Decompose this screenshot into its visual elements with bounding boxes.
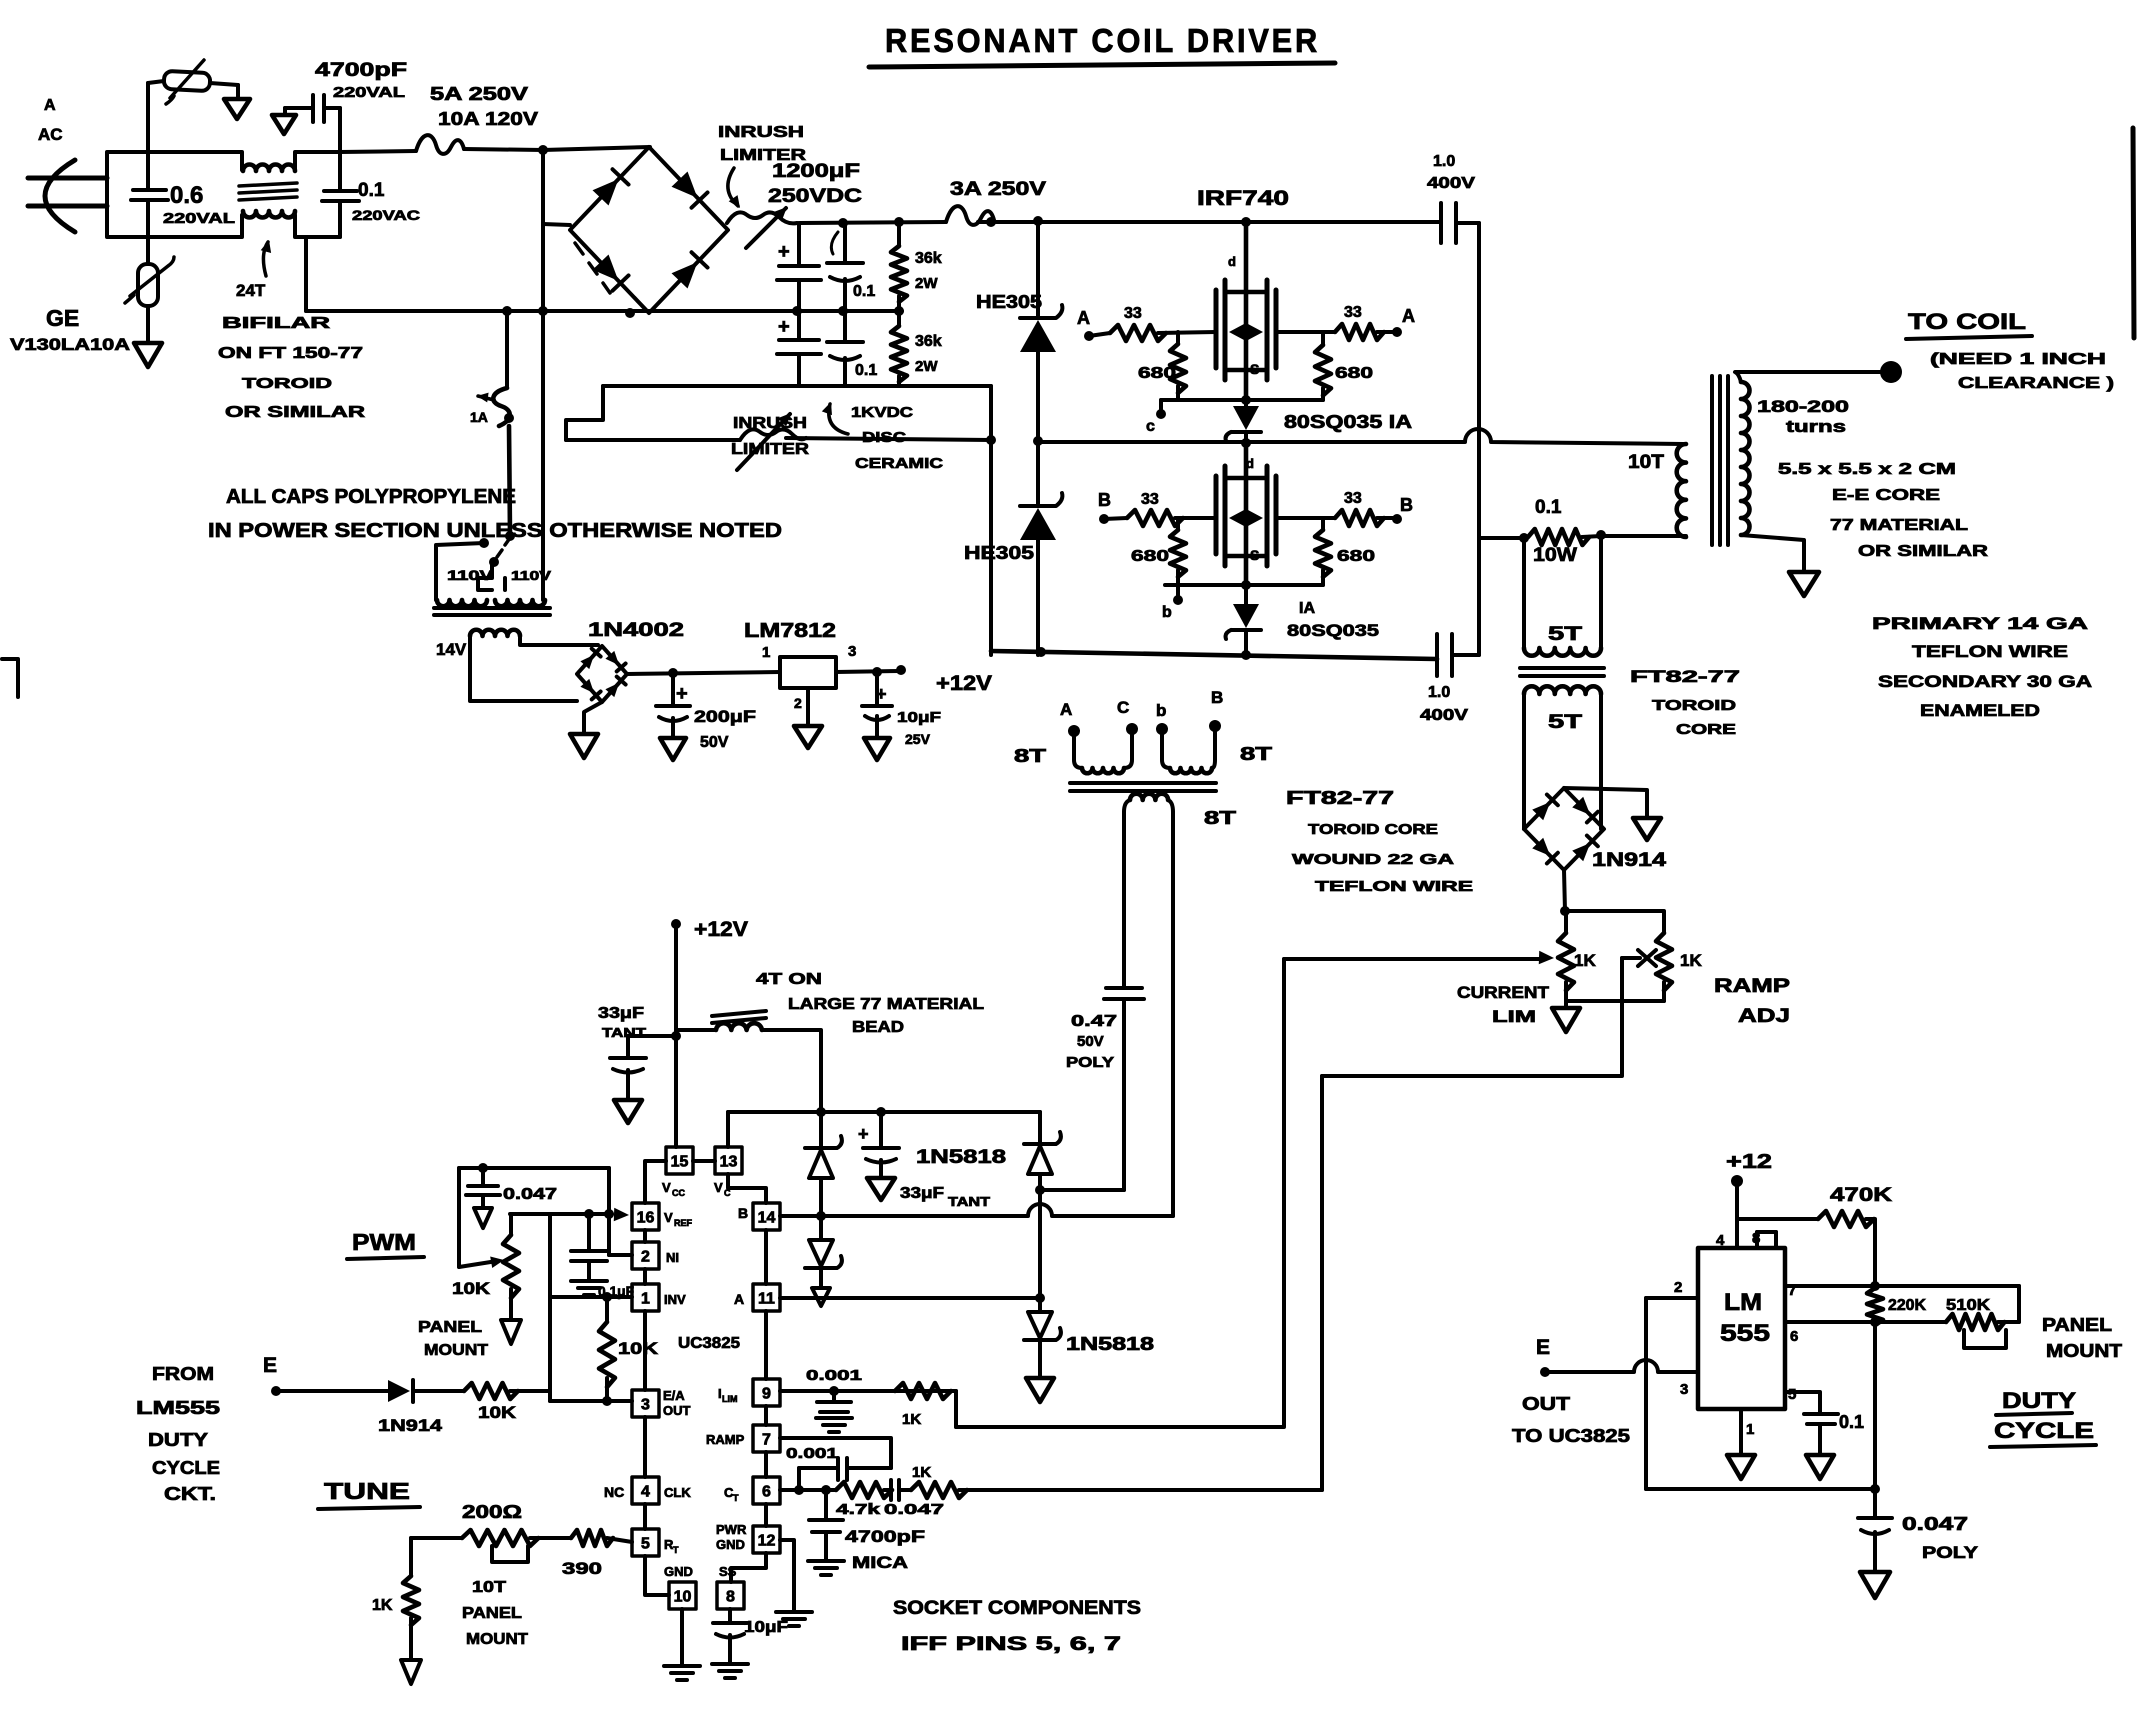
diode D2 HE305	[1033, 436, 1043, 446]
svg-text:6: 6	[1790, 1328, 1798, 1345]
svg-text:c: c	[1146, 418, 1155, 435]
svg-text:5T: 5T	[1548, 712, 1583, 733]
svg-text:S: S	[1250, 361, 1259, 377]
svg-text:CLEARANCE ): CLEARANCE )	[1958, 375, 2114, 392]
wire PWR GND pin12	[780, 1540, 794, 1610]
svg-text:S: S	[1250, 547, 1259, 563]
ground pin2 LM7812	[806, 688, 810, 724]
svg-text:IN POWER SECTION UNLESS OTHE: IN POWER SECTION UNLESS OTHERWISE NOTED	[208, 520, 782, 542]
callout arrow to choke	[263, 242, 268, 276]
wire bridge left arm	[543, 224, 570, 225]
svg-text:33: 33	[1344, 304, 1362, 321]
svg-text:RAMP: RAMP	[1714, 976, 1790, 997]
svg-text:10K: 10K	[452, 1279, 491, 1298]
svg-text:UC3825: UC3825	[678, 1335, 740, 1352]
svg-text:TANT: TANT	[948, 1194, 990, 1209]
svg-text:GND: GND	[716, 1537, 745, 1552]
capacitor 0.001 ramp	[799, 1466, 836, 1470]
svg-text:13: 13	[720, 1154, 738, 1171]
ground pin1	[1739, 1409, 1743, 1453]
callout arrow ceramic	[829, 404, 848, 434]
svg-text:5A 250V: 5A 250V	[430, 84, 528, 104]
svg-text:T: T	[733, 1493, 739, 1503]
svg-text:PWR: PWR	[716, 1522, 747, 1537]
svg-text:4700pF: 4700pF	[315, 60, 407, 81]
transformer T3 secondary 100-200 turns	[1741, 382, 1750, 535]
svg-text:25V: 25V	[905, 731, 931, 747]
wire A drop across B	[1038, 1190, 1042, 1298]
svg-text:680: 680	[1138, 365, 1176, 382]
varistor RV1 top	[146, 83, 150, 152]
capacitor 1.0 400V top	[1439, 203, 1443, 243]
svg-text:1K: 1K	[1680, 951, 1702, 970]
svg-text:LM: LM	[1724, 1289, 1762, 1316]
svg-text:+: +	[676, 683, 688, 705]
fuse F1 5A 250V	[340, 151, 416, 152]
svg-text:PRIMARY 14 GA: PRIMARY 14 GA	[1872, 614, 2088, 633]
svg-text:POLY: POLY	[1066, 1054, 1114, 1071]
IC U1 UC3825 pin boxes	[666, 1147, 693, 1174]
svg-text:ADJ: ADJ	[1738, 1006, 1790, 1027]
capacitor 4700pF MICA	[824, 1490, 828, 1518]
svg-text:IFF PINS 5, 6, 7: IFF PINS 5, 6, 7	[901, 1634, 1121, 1655]
svg-text:CLK: CLK	[664, 1485, 691, 1500]
svg-text:10μF: 10μF	[744, 1619, 788, 1636]
ground 0.047 POLY	[1860, 1572, 1890, 1598]
svg-text:T: T	[673, 1545, 679, 1555]
svg-text:2W: 2W	[915, 358, 938, 375]
svg-text:0.1: 0.1	[1839, 1412, 1864, 1432]
wire bridge to regulator	[627, 672, 780, 674]
svg-text:FT82-77: FT82-77	[1630, 667, 1740, 686]
voltage selector switch	[497, 538, 510, 557]
wire top to bridge	[538, 145, 548, 155]
svg-text:ALL CAPS POLYPROPYLENE: ALL CAPS POLYPROPYLENE	[226, 486, 516, 508]
capacitor 0.6 220VAC	[146, 152, 150, 188]
svg-text:16: 16	[637, 1210, 655, 1227]
svg-text:TANT: TANT	[602, 1025, 646, 1040]
potentiometer 1K CURRENT LIM	[1564, 911, 1568, 933]
svg-text:SOCKET COMPONENTS: SOCKET COMPONENTS	[893, 1598, 1141, 1619]
inrush limiter 1	[727, 212, 797, 223]
ground current lim pot	[1552, 1008, 1580, 1032]
svg-text:4.7k: 4.7k	[836, 1501, 881, 1518]
resistor 0.1 10W	[1479, 536, 1524, 540]
svg-text:5: 5	[641, 1536, 650, 1553]
resistor 1K to ground	[409, 1538, 413, 1576]
svg-text:33μF: 33μF	[598, 1005, 644, 1022]
svg-text:3: 3	[1680, 1381, 1688, 1398]
resistor 470K	[1737, 1217, 1818, 1221]
svg-text:RESONANT COIL DRIVER: RESONANT COIL DRIVER	[885, 22, 1320, 59]
svg-text:250VDC: 250VDC	[768, 186, 862, 207]
dashed wire at bridge	[575, 243, 610, 293]
svg-text:1K: 1K	[902, 1411, 921, 1428]
resistor 680 left Q3	[1176, 518, 1180, 530]
svg-text:1K: 1K	[372, 1597, 393, 1614]
wiper ramp adj	[1638, 950, 1656, 966]
svg-text:5.5 x 5.5 x 2 CM: 5.5 x 5.5 x 2 CM	[1778, 461, 1956, 478]
svg-text:INRUSH: INRUSH	[718, 124, 804, 141]
svg-text:33: 33	[1124, 305, 1142, 322]
svg-text:PWM: PWM	[352, 1229, 416, 1255]
svg-text:680: 680	[1335, 365, 1373, 382]
svg-text:RAMP: RAMP	[706, 1432, 745, 1447]
svg-text:GE: GE	[46, 305, 79, 331]
svg-text:+12V: +12V	[694, 918, 748, 941]
svg-text:400V: 400V	[1427, 175, 1475, 192]
svg-text:8: 8	[726, 1589, 735, 1606]
svg-text:A: A	[44, 97, 56, 114]
svg-text:220K: 220K	[1888, 1297, 1926, 1314]
ground for RV1 top	[224, 99, 250, 119]
svg-text:E-E CORE: E-E CORE	[1832, 487, 1940, 504]
capacitor 1.0 400V bottom	[1435, 634, 1439, 676]
capacitor 33uF TANT at VCC	[628, 1034, 676, 1038]
svg-text:+12: +12	[1726, 1151, 1772, 1173]
transformer T2 14V secondary	[470, 630, 520, 636]
svg-text:10W: 10W	[1533, 545, 1577, 566]
svg-text:400V: 400V	[1420, 707, 1468, 724]
svg-text:0.1: 0.1	[855, 362, 877, 379]
ground for RV2	[134, 343, 162, 367]
svg-text:1.0: 1.0	[1428, 684, 1450, 701]
svg-text:INRUSH: INRUSH	[733, 415, 807, 432]
svg-text:V130LA10A: V130LA10A	[10, 335, 130, 354]
svg-text:OUT: OUT	[1522, 1394, 1570, 1414]
wire timing bottom	[1646, 1487, 1875, 1491]
wire mid rail	[1038, 429, 1683, 444]
potentiometer 200 ohm 10T panel mount	[411, 1536, 462, 1540]
svg-text:14V: 14V	[436, 640, 467, 659]
svg-text:FT82-77: FT82-77	[1286, 788, 1394, 808]
svg-text:0.47: 0.47	[1071, 1013, 1117, 1030]
node A left	[1084, 331, 1094, 341]
svg-text:50V: 50V	[700, 734, 729, 751]
capacitor 0.047 POLY	[1873, 1489, 1877, 1516]
bridge rectifier D6-D9 1N914	[1524, 788, 1604, 870]
transformer T3 primary 10T	[1677, 444, 1686, 537]
wire neutral vertical	[541, 150, 545, 600]
diode clamp A high 1N5818	[1038, 1112, 1042, 1142]
svg-text:0.1: 0.1	[853, 283, 875, 300]
svg-text:200μF: 200μF	[694, 707, 756, 726]
transformer T5 winding 8T secondary	[1124, 800, 1130, 812]
wire bottom rail	[991, 651, 1437, 659]
resistor 33 gate A right	[1276, 330, 1335, 334]
svg-text:MOUNT: MOUNT	[424, 1342, 488, 1359]
svg-text:0.001: 0.001	[786, 1445, 838, 1462]
svg-text:0.047: 0.047	[884, 1501, 944, 1518]
svg-text:V: V	[664, 1210, 673, 1225]
svg-text:LIMITER: LIMITER	[731, 441, 810, 458]
source wire Q1	[1161, 398, 1323, 402]
resistor 4.7K	[836, 1482, 892, 1498]
EMI filter box	[107, 152, 242, 237]
svg-text:10T: 10T	[472, 1579, 506, 1596]
svg-text:HE305: HE305	[964, 543, 1034, 563]
svg-text:CYCLE: CYCLE	[152, 1458, 220, 1478]
ground 33uF TANT	[614, 1100, 642, 1123]
svg-text:680: 680	[1131, 548, 1169, 565]
svg-text:OR SIMILAR: OR SIMILAR	[225, 404, 366, 421]
svg-text:2W: 2W	[915, 275, 938, 292]
svg-text:SECONDARY 30 GA: SECONDARY 30 GA	[1878, 672, 2092, 691]
wire +12V output	[836, 671, 901, 672]
diode D4 80SQ035	[1244, 585, 1248, 604]
mid bus wire	[304, 237, 308, 311]
capacitor 0.047 at VREF	[481, 1168, 485, 1184]
resistor 36k 2W row1	[897, 222, 901, 246]
svg-text:0.047: 0.047	[1902, 1514, 1968, 1534]
transformer T5 winding 8T left	[1074, 733, 1082, 768]
svg-text:(NEED 1 INCH: (NEED 1 INCH	[1930, 351, 2106, 368]
svg-text:d: d	[1228, 254, 1236, 269]
label 1A with arrow	[478, 396, 494, 400]
svg-text:E: E	[263, 1354, 277, 1377]
svg-text:50V: 50V	[1077, 1033, 1104, 1050]
svg-text:CYCLE: CYCLE	[1994, 1418, 2094, 1443]
resistor 33 gate A left	[1089, 333, 1110, 336]
resistor 680 left Q1	[1176, 332, 1180, 344]
svg-text:+: +	[858, 1124, 869, 1144]
transformer T5 terminals A C b B	[1068, 725, 1080, 737]
wire wiper current lim	[1284, 957, 1542, 961]
svg-text:110V: 110V	[511, 568, 551, 583]
svg-text:0.001: 0.001	[806, 1367, 862, 1384]
svg-text:V: V	[662, 1180, 671, 1195]
wire pin2 trigger	[1646, 1296, 1698, 1300]
node E input	[271, 1386, 281, 1396]
svg-text:MICA: MICA	[852, 1553, 908, 1572]
AC plug J1	[45, 160, 75, 232]
svg-text:390: 390	[562, 1559, 602, 1578]
svg-text:d: d	[1246, 456, 1254, 471]
resistor 1K ilim	[895, 1383, 951, 1399]
wire right rail	[1477, 223, 1481, 655]
capacitor 0.1uF at NI	[587, 1214, 591, 1249]
svg-text:1200μF: 1200μF	[772, 161, 860, 182]
svg-text:LM7812: LM7812	[744, 620, 836, 642]
svg-text:0.6: 0.6	[170, 182, 203, 209]
capacitor 10uF at SS pin8	[728, 1609, 732, 1621]
svg-text:PANEL: PANEL	[2042, 1315, 2112, 1335]
svg-text:510K: 510K	[1946, 1297, 1991, 1314]
wire pin7 discharge	[1785, 1284, 2019, 1288]
capacitor 0.1 220VAC	[338, 152, 342, 190]
svg-text:HE305: HE305	[976, 292, 1042, 312]
svg-text:1N5818: 1N5818	[916, 1147, 1006, 1168]
capacitor 0.1 at pin5	[1785, 1392, 1820, 1412]
diode D3 80SQ035	[1244, 400, 1248, 406]
resistor 33 gate B right	[1276, 516, 1335, 520]
svg-text:CC: CC	[672, 1188, 685, 1198]
wire CT pin6	[780, 1488, 836, 1492]
svg-text:8T: 8T	[1240, 744, 1272, 764]
svg-text:220VAC: 220VAC	[352, 207, 420, 223]
svg-text:10A 120V: 10A 120V	[438, 109, 538, 129]
svg-text:0.1: 0.1	[358, 180, 385, 201]
diode clamp A low 1N5818	[1038, 1298, 1042, 1312]
potentiometer 1K RAMP ADJ	[1656, 933, 1672, 990]
resistor 10K at E	[413, 1389, 464, 1393]
svg-text:A: A	[1402, 306, 1415, 326]
wire ILIM pin9	[780, 1389, 956, 1393]
svg-text:NC: NC	[604, 1484, 624, 1500]
svg-text:A: A	[1077, 308, 1090, 328]
capacitor 0.1 row2	[843, 311, 847, 340]
scan artifact right edge	[2133, 128, 2134, 338]
scan artifact left edge	[2, 659, 18, 697]
resistor 220K	[1867, 1288, 1883, 1325]
wire VREF network	[510, 1212, 612, 1216]
svg-text:1N5818: 1N5818	[1066, 1334, 1154, 1354]
svg-text:ON FT 150-77: ON FT 150-77	[218, 345, 363, 362]
svg-text:+12V: +12V	[936, 672, 992, 695]
svg-text:7: 7	[762, 1432, 771, 1449]
svg-text:10T: 10T	[1628, 452, 1664, 473]
resistor 680 right Q1	[1321, 332, 1325, 345]
svg-text:TEFLON WIRE: TEFLON WIRE	[1912, 642, 2068, 661]
svg-text:4: 4	[641, 1484, 650, 1501]
svg-text:PANEL: PANEL	[418, 1319, 482, 1336]
wire VC rail	[728, 1110, 1040, 1114]
small arrow row1	[831, 232, 838, 254]
svg-text:CORE: CORE	[1676, 721, 1736, 738]
transformer T5 winding 8T right	[1162, 733, 1170, 768]
transformer T2 core	[434, 606, 550, 610]
svg-text:680: 680	[1337, 548, 1375, 565]
svg-text:CERAMIC: CERAMIC	[855, 455, 943, 472]
wire feedback vertical	[548, 1214, 552, 1401]
svg-text:TEFLON WIRE: TEFLON WIRE	[1315, 878, 1473, 895]
resistor 390	[571, 1530, 613, 1546]
svg-text:33μF: 33μF	[900, 1185, 944, 1202]
svg-text:0.1: 0.1	[1535, 497, 1562, 518]
svg-text:E: E	[1536, 1336, 1550, 1359]
svg-text:9: 9	[762, 1386, 771, 1403]
resistor 10K feedback	[605, 1297, 609, 1322]
svg-text:1KVDC: 1KVDC	[851, 404, 913, 421]
ground 0.1 pin5	[1806, 1455, 1834, 1479]
capacitor 0.47 50V POLY	[1122, 812, 1126, 986]
MOSFET Q3/Q4 IRF740 pair B	[1244, 444, 1249, 585]
svg-text:+: +	[778, 316, 790, 338]
wire output B	[780, 1204, 1173, 1216]
svg-text:1N914: 1N914	[378, 1416, 443, 1435]
svg-text:MOUNT: MOUNT	[2046, 1341, 2122, 1361]
transformer T3 core	[1710, 376, 1714, 545]
wire lower bus L1	[603, 384, 991, 388]
svg-text:11: 11	[758, 1291, 775, 1308]
svg-text:+: +	[778, 241, 790, 263]
svg-text:CKT.: CKT.	[164, 1484, 216, 1504]
svg-text:470K: 470K	[1830, 1185, 1892, 1206]
IC connector spine	[645, 1161, 669, 1595]
wire output A	[780, 1296, 1040, 1300]
svg-text:b: b	[1162, 604, 1172, 621]
svg-text:A: A	[734, 1291, 744, 1307]
wire +12V to VCC	[671, 919, 681, 929]
svg-text:1: 1	[762, 644, 770, 661]
transformer T2 110V/110V primary	[437, 600, 487, 606]
svg-text:FROM: FROM	[152, 1364, 214, 1384]
resistor 33 gate B left	[1104, 518, 1127, 519]
potentiometer 10K PWM panel mount	[509, 1214, 513, 1235]
svg-text:2: 2	[641, 1249, 650, 1266]
svg-text:DISC: DISC	[862, 429, 906, 446]
wire GND pin10	[680, 1609, 684, 1664]
regulator U2 LM7812	[780, 657, 836, 688]
wire ilim to UC3825	[956, 959, 1284, 1427]
wire E/A OUT pin3	[550, 1399, 632, 1403]
svg-text:36k: 36k	[915, 250, 942, 267]
resistor 1K ramp line	[911, 1482, 967, 1498]
node b	[1176, 585, 1180, 597]
svg-text:REF: REF	[674, 1218, 693, 1228]
svg-text:10K: 10K	[478, 1403, 517, 1422]
svg-text:4700pF: 4700pF	[845, 1527, 925, 1546]
resistor 36k 2W row2	[897, 311, 901, 326]
node c	[1159, 400, 1163, 410]
svg-text:8T: 8T	[1014, 746, 1046, 766]
svg-text:NI: NI	[666, 1250, 679, 1265]
svg-text:200Ω: 200Ω	[462, 1502, 522, 1522]
wire lower bus L2 with inrush limiter 2	[566, 438, 740, 442]
svg-text:8T: 8T	[1204, 808, 1236, 828]
wire INV pin1	[550, 1295, 632, 1299]
svg-text:5T: 5T	[1548, 624, 1583, 645]
capacitor 0.001 at ILIM	[832, 1391, 836, 1400]
svg-text:E/A: E/A	[663, 1388, 685, 1403]
svg-text:ENAMELED: ENAMELED	[1920, 701, 2040, 720]
svg-text:V: V	[714, 1180, 723, 1195]
svg-text:C: C	[1117, 698, 1129, 717]
svg-text:LM555: LM555	[136, 1398, 220, 1418]
wire top rail	[800, 222, 946, 223]
svg-text:1N4002: 1N4002	[588, 620, 684, 641]
inductor 4T bead	[676, 1028, 716, 1032]
svg-text:PANEL: PANEL	[462, 1605, 522, 1622]
wire secondary bottom to ground	[1741, 535, 1804, 570]
svg-text:CURRENT: CURRENT	[1457, 983, 1550, 1002]
svg-text:B: B	[1400, 495, 1413, 515]
svg-text:B: B	[1211, 688, 1223, 707]
diode clamp B low 1N5818	[819, 1216, 823, 1240]
svg-text:5: 5	[1788, 1386, 1796, 1403]
svg-text:BEAD: BEAD	[852, 1019, 904, 1036]
svg-text:4T ON: 4T ON	[756, 971, 822, 988]
wire right drop to bottom rail	[989, 386, 993, 655]
svg-text:33: 33	[1344, 490, 1362, 507]
svg-text:turns: turns	[1786, 417, 1846, 436]
svg-text:b: b	[1156, 701, 1166, 720]
ground clamp A	[1026, 1378, 1054, 1402]
transformer T4 5T secondary	[1524, 686, 1601, 694]
svg-text:110V: 110V	[447, 567, 494, 583]
svg-text:4: 4	[1716, 1232, 1725, 1249]
svg-text:1N914: 1N914	[1592, 850, 1667, 871]
svg-text:B: B	[1098, 490, 1111, 510]
capacitor 0.1 row1	[843, 223, 847, 261]
diode clamp B high 1N5818	[819, 1112, 823, 1146]
svg-text:1A: 1A	[470, 409, 488, 425]
fuse F2 1A to aux transformer	[505, 311, 509, 388]
svg-text:INV: INV	[664, 1292, 686, 1307]
common-mode choke T1 24T bifilar	[243, 165, 295, 172]
svg-text:1: 1	[641, 1291, 650, 1308]
node B left	[1099, 514, 1109, 524]
